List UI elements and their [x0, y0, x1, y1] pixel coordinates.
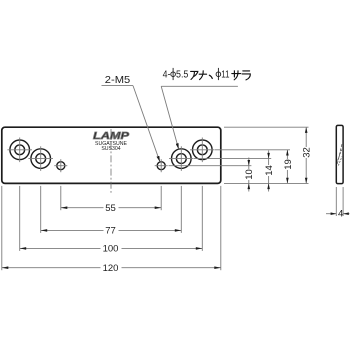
svg-text:11: 11	[221, 70, 230, 81]
svg-text:5.5: 5.5	[176, 70, 189, 81]
svg-text:10: 10	[244, 169, 255, 180]
svg-text:120: 120	[103, 263, 119, 274]
svg-text:4-: 4-	[163, 70, 171, 81]
svg-text:2-M5: 2-M5	[105, 75, 131, 86]
svg-text:14: 14	[264, 165, 275, 176]
svg-text:4: 4	[338, 209, 343, 220]
svg-text:19: 19	[283, 159, 294, 170]
svg-text:77: 77	[105, 226, 116, 237]
svg-text:32: 32	[302, 147, 313, 158]
svg-text:55: 55	[105, 203, 116, 214]
svg-text:100: 100	[103, 244, 119, 255]
svg-text:SUS304: SUS304	[101, 146, 120, 152]
